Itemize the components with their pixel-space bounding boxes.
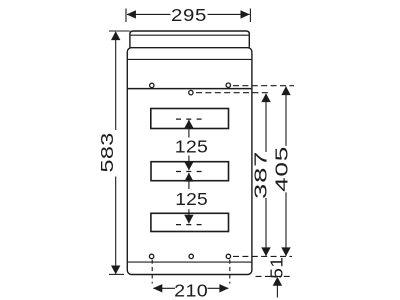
svg-text:210: 210 [174,280,208,300]
dashed ref line hole mid [196,92,269,94]
arrowhead 125b up [184,173,193,182]
arrowhead 51 up [273,277,282,286]
mounting hole top-left [150,83,154,87]
mounting hole mid [189,90,193,94]
svg-text:387: 387 [251,151,271,199]
dashed ref line holes bottom row [233,255,292,257]
svg-text:51: 51 [266,256,286,278]
svg-text:295: 295 [171,6,207,25]
window cutout 2 [151,162,229,181]
lid seam line [130,34,249,36]
dim 210 line [153,287,228,289]
arrowhead 387 down [261,247,270,256]
dim 387 line [265,94,267,256]
dim 583 line [115,32,117,274]
arrowhead 387 up [261,93,270,102]
mounting hole bottom-mid [189,254,193,258]
window 2 centerline [176,171,203,173]
window 1 centerline [176,118,203,120]
body top seam line [127,58,252,60]
dashed ref line holes top row [233,85,294,87]
svg-text:405: 405 [272,146,292,192]
body hinge line [127,88,252,90]
arrowhead 295 left [127,10,136,18]
dim 125b line [188,173,190,223]
dim 295 line [127,13,250,15]
arrowhead 583 up [111,31,120,40]
mounting hole bottom-left [149,254,153,258]
arrowhead 405 up [281,86,290,95]
dashed ref line enclosure bottom [256,275,293,277]
window 3 centerline [176,224,203,226]
svg-text:125: 125 [175,189,208,209]
arrowhead 583 down [111,266,120,275]
svg-text:125: 125 [175,136,208,156]
arrowhead 405 down [281,247,290,256]
mounting hole bottom-right [226,254,230,258]
body bottom seam line [127,261,252,263]
window cutout 1 [151,109,229,129]
window cutout 3 [151,213,229,231]
mounting hole top-right [226,83,230,87]
svg-text:583: 583 [98,132,118,172]
dashed ext line 210 left [151,260,153,284]
dashed ext line 210 right [229,260,231,284]
dim 583 extension bottom [109,273,124,275]
dim 295 extension tick right [249,9,251,23]
arrowhead 125a up [184,120,193,129]
arrowhead 125b down [184,215,193,224]
dim 405 line [285,87,287,256]
enclosure body outline [127,48,252,275]
arrowhead 125a down [184,162,193,171]
arrowhead 210 left [153,284,162,292]
enclosure lid outline [130,31,249,48]
dim 51 arrow stem [276,278,278,298]
arrowhead 295 right [241,10,250,18]
dim 583 extension top [109,30,130,32]
dim 125a line [188,120,190,170]
dim 295 extension tick left [125,9,127,23]
arrowhead 210 right [219,284,228,292]
